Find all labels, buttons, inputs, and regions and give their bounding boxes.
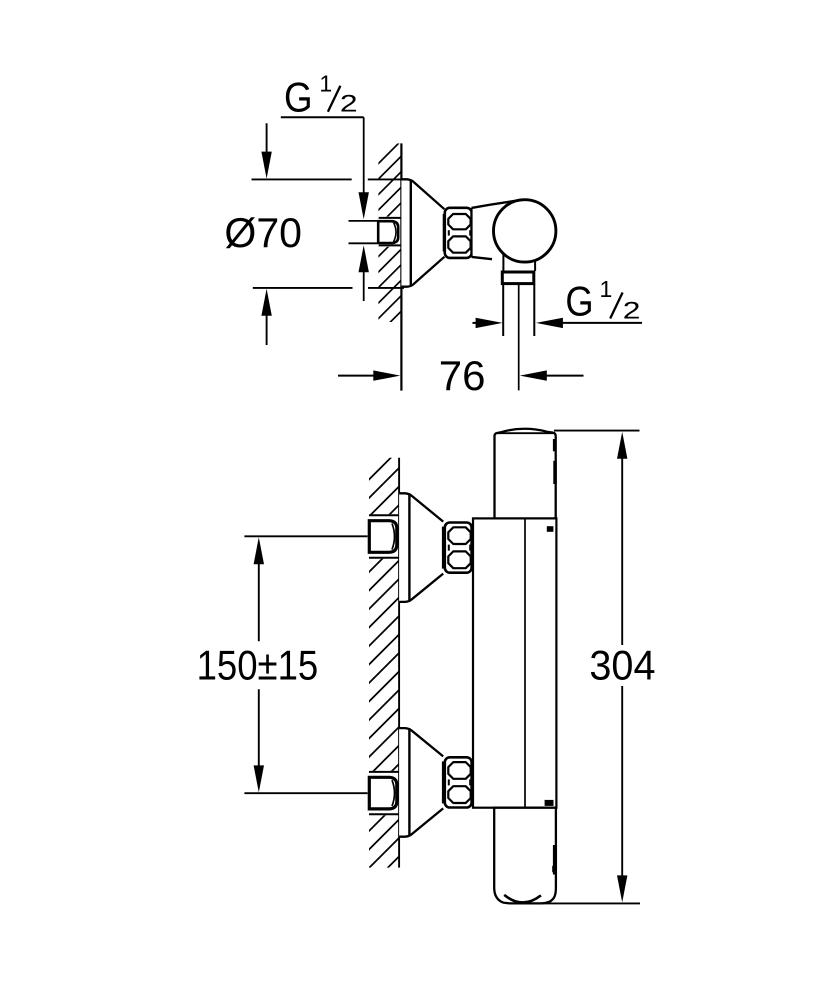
hose centerline fig1 [518,285,520,390]
dim G1/2 top: lower arrow [359,245,369,272]
escutcheon top union [399,493,443,602]
wall fig1 [400,143,402,390]
svg-text:2: 2 [340,90,358,118]
dim 304: extension lines [554,430,640,432]
svg-text:G: G [284,74,313,121]
knob circle fig1 [494,200,556,262]
label G 1/2 (right) [565,276,640,325]
bottom handle fig2 [494,808,556,904]
body detail mark upper [547,526,554,532]
svg-text:76: 76 [439,352,486,399]
dim G1/2 top: label underline [281,116,364,118]
union nut fig1 [443,214,445,252]
svg-text:150±15: 150±15 [197,642,319,689]
hose collar fig1 [502,272,534,284]
dim 150±15: line and arrows [254,537,264,564]
dim G1/2 top: leader [363,117,365,193]
escutcheon bottom union [399,728,443,837]
nut top union [442,527,444,569]
nipple G1/2 fig1 (white over hatch) [377,217,402,247]
svg-text:Ø70: Ø70 [224,209,302,257]
svg-text:304: 304 [589,642,655,689]
dim 304: line and arrows [617,432,627,459]
svg-text:2: 2 [623,297,641,325]
svg-text:1: 1 [600,276,613,302]
wall hatching fig2 [365,447,402,910]
union nipple top (white over hatch) [368,514,400,558]
valve body cone fig1 [472,201,525,260]
escutcheon fig1 [401,179,444,286]
dim 150±15: extension lines [244,535,367,537]
union nipple bottom (white over hatch) [368,771,400,815]
svg-text:1: 1 [319,71,332,97]
body detail mark lower [545,800,554,806]
dim G1/2 top: extension lines [349,220,378,222]
wall fig2 [398,458,400,868]
neck under knob fig1 [502,248,504,271]
dim G1/2 right: arrows [473,322,478,324]
dim 76: arrows [338,375,374,377]
dim Ø70: arrows [266,123,268,153]
valve body fig2 [473,518,556,807]
dim Ø70: extension lines [252,178,352,180]
label G 1/2 (top) [284,71,358,122]
svg-text:G: G [565,278,593,325]
top handle fig2 [495,429,556,519]
hose pipe fig1 [502,285,504,337]
nut bottom union [442,761,444,803]
body internal edge [524,518,526,807]
wall hatching fig1 [375,138,404,353]
